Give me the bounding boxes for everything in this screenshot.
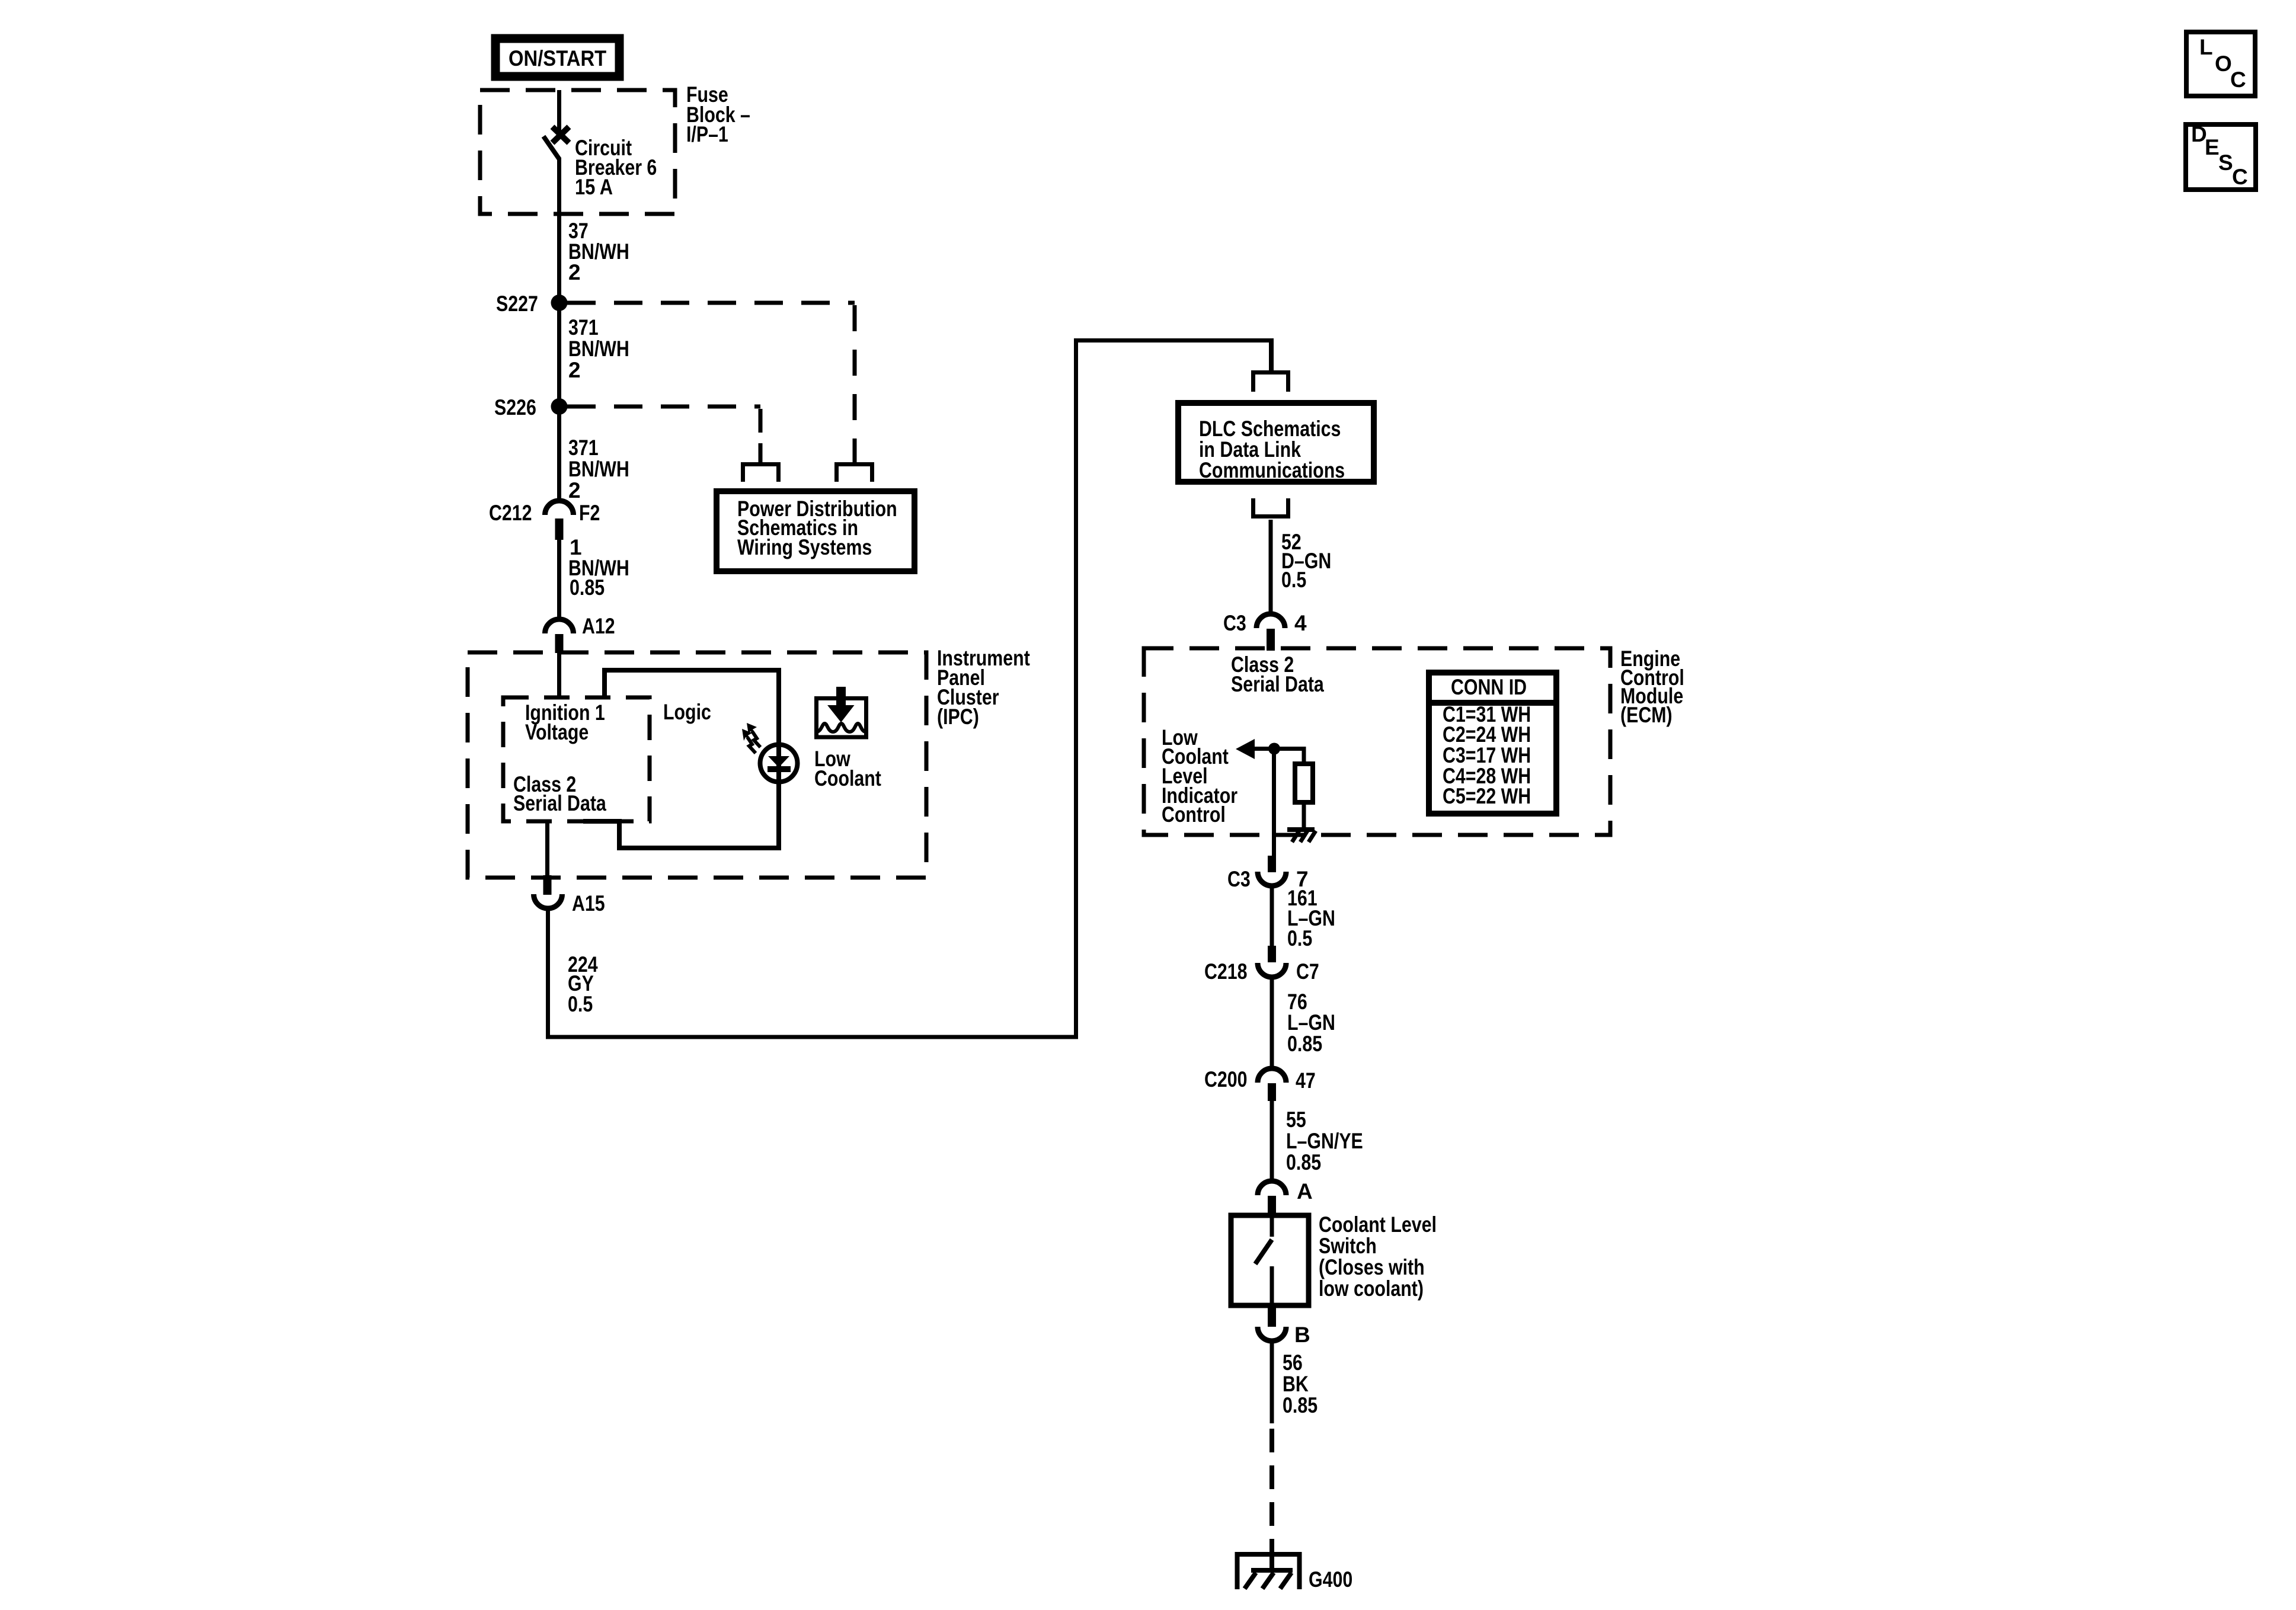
ignition 1 voltage / class 2 serial data dashed box <box>503 697 650 821</box>
svg-text:S226: S226 <box>494 395 536 420</box>
DESC reference box <box>2186 122 2256 190</box>
svg-text:0.5: 0.5 <box>1287 926 1312 950</box>
node class 2 serial data (ECM) <box>1231 652 1324 696</box>
wire 37 BN/WH 2 <box>559 214 629 303</box>
svg-text:2: 2 <box>568 260 581 284</box>
dashed wire from S227 to Power Distribution (right branch) <box>567 303 855 462</box>
LED indicator (low coolant telltale) <box>742 723 798 782</box>
coolant level switch <box>1231 1212 1437 1305</box>
svg-text:O: O <box>2215 52 2232 76</box>
wire 56 BK 0.85 <box>1272 1340 1318 1423</box>
svg-text:L–GN/YE: L–GN/YE <box>1286 1129 1363 1153</box>
svg-text:C7: C7 <box>1296 959 1319 984</box>
svg-text:56: 56 <box>1283 1350 1303 1375</box>
svg-text:4: 4 <box>1294 611 1307 635</box>
svg-text:2: 2 <box>568 358 581 382</box>
CONN ID table <box>1429 673 1556 814</box>
svg-text:L: L <box>2199 35 2213 59</box>
svg-text:Serial Data: Serial Data <box>1231 672 1324 696</box>
wire 55 L-GN/YE 0.85 <box>1272 1101 1363 1182</box>
connector C218 / C7 <box>1204 946 1319 984</box>
svg-text:Coolant: Coolant <box>814 766 881 790</box>
svg-text:I/P–1: I/P–1 <box>686 122 728 146</box>
circuit breaker 6 15 A <box>543 127 657 214</box>
svg-text:2: 2 <box>568 478 581 502</box>
svg-text:BK: BK <box>1283 1372 1309 1396</box>
off-page connector bracket (left, above Power Distribution box) <box>743 465 779 482</box>
svg-text:low coolant): low coolant) <box>1319 1276 1424 1301</box>
wire 76 L-GN 0.85 <box>1272 976 1335 1069</box>
svg-text:E: E <box>2205 135 2220 159</box>
dashed wire from S226 to Power Distribution (left branch) <box>567 406 760 462</box>
svg-text:A12: A12 <box>582 614 615 638</box>
svg-text:Serial Data: Serial Data <box>513 791 606 815</box>
svg-text:S227: S227 <box>496 292 538 316</box>
connector C3 / 7 <box>1227 856 1309 891</box>
connector B <box>1258 1305 1310 1347</box>
svg-text:C: C <box>2230 68 2246 92</box>
svg-text:C212: C212 <box>489 501 532 525</box>
wire A12 into IPC <box>557 652 561 699</box>
instrument panel cluster dashed box <box>468 646 1030 878</box>
fuse block I/P-1 dashed box <box>480 82 750 214</box>
svg-text:(Closes with: (Closes with <box>1319 1255 1425 1279</box>
wire 371 BN/WH 2 (S226 to C212) <box>559 406 629 503</box>
connector C3 / 4 <box>1223 611 1307 651</box>
svg-text:Switch: Switch <box>1319 1234 1377 1258</box>
svg-text:Wiring Systems: Wiring Systems <box>737 535 872 559</box>
low coolant icon <box>814 687 881 790</box>
svg-text:ON/START: ON/START <box>509 46 607 71</box>
svg-text:BN/WH: BN/WH <box>568 457 629 481</box>
svg-text:Control: Control <box>1162 802 1226 827</box>
svg-text:BN/WH: BN/WH <box>568 337 629 361</box>
svg-text:C5=22 WH: C5=22 WH <box>1443 784 1531 808</box>
svg-text:C3: C3 <box>1227 867 1251 891</box>
svg-text:0.85: 0.85 <box>1283 1393 1318 1417</box>
wire 52 D-GN 0.5 <box>1271 520 1331 615</box>
svg-text:Coolant Level: Coolant Level <box>1319 1212 1437 1237</box>
svg-text:(ECM): (ECM) <box>1620 703 1673 727</box>
svg-text:0.5: 0.5 <box>1281 568 1306 592</box>
wire from ON/START into fuse block <box>557 90 561 132</box>
svg-text:S: S <box>2218 151 2233 175</box>
svg-text:55: 55 <box>1286 1108 1306 1132</box>
svg-text:47: 47 <box>1296 1068 1316 1093</box>
svg-text:371: 371 <box>568 436 599 460</box>
svg-text:15 A: 15 A <box>575 175 613 199</box>
svg-text:0.85: 0.85 <box>1286 1150 1321 1174</box>
svg-text:G400: G400 <box>1309 1567 1352 1592</box>
ground G400 <box>1237 1554 1353 1592</box>
svg-text:C218: C218 <box>1204 959 1248 984</box>
off-page connector bracket (right, above Power Distribution box) <box>837 465 872 482</box>
svg-text:(IPC): (IPC) <box>937 705 979 729</box>
svg-text:Logic: Logic <box>663 700 711 724</box>
svg-text:CONN ID: CONN ID <box>1451 675 1527 699</box>
svg-text:B: B <box>1294 1323 1310 1347</box>
splice S226 <box>494 395 568 420</box>
wire 371 BN/WH 2 (S227 to S226) <box>559 303 629 406</box>
svg-text:C: C <box>2232 165 2248 189</box>
ground (ECM internal) <box>1287 827 1316 842</box>
low coolant level indicator control: arrow and junction <box>1162 725 1304 856</box>
power feed box ON/START <box>495 39 619 76</box>
resistor (ECM internal) <box>1295 747 1313 830</box>
svg-text:L–GN: L–GN <box>1287 1010 1335 1035</box>
wire 1 BN/WH 0.85 <box>559 535 629 620</box>
svg-text:371: 371 <box>568 315 599 340</box>
logic block outline <box>583 670 779 848</box>
svg-text:Voltage: Voltage <box>525 720 589 744</box>
connector C212 / F2 <box>489 501 600 540</box>
connector A12 <box>545 614 615 653</box>
connector A15 <box>534 875 605 916</box>
connector C200 / 47 <box>1204 1067 1316 1101</box>
LOC reference box <box>2186 32 2255 96</box>
wire 224 GY 0.5 long route to DLC <box>546 338 1271 1039</box>
svg-text:A15: A15 <box>572 891 605 916</box>
svg-text:A: A <box>1297 1179 1313 1204</box>
svg-text:C200: C200 <box>1204 1067 1248 1092</box>
engine control module dashed box <box>1144 646 1684 835</box>
svg-text:C3: C3 <box>1223 611 1246 635</box>
wire 161 L-GN 0.5 <box>1272 885 1335 950</box>
svg-text:0.5: 0.5 <box>568 992 593 1016</box>
off-page connector bracket above DLC box <box>1253 373 1288 392</box>
svg-text:0.85: 0.85 <box>1287 1032 1322 1056</box>
splice S227 <box>496 292 568 316</box>
DLC schematics box <box>1178 403 1374 482</box>
svg-text:0.85: 0.85 <box>570 575 605 600</box>
wire class 2 serial data out of IPC <box>545 821 549 879</box>
off-page connector bracket below DLC box <box>1253 498 1288 517</box>
dashed wire to G400 <box>1269 1429 1274 1570</box>
svg-text:Communications: Communications <box>1199 458 1345 482</box>
Power Distribution Schematics box <box>717 491 914 571</box>
svg-text:F2: F2 <box>579 501 600 525</box>
connector A <box>1258 1179 1313 1216</box>
